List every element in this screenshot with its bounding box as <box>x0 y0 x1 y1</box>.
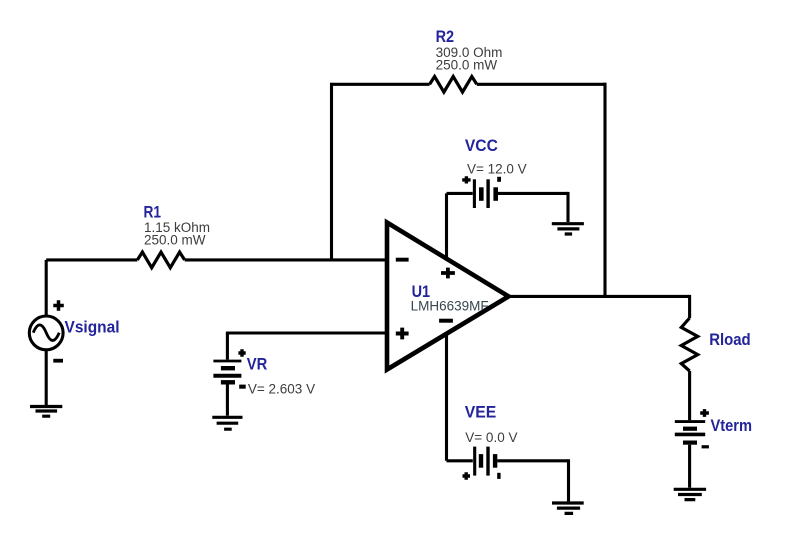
wire Rload to Vterm vertical <box>688 371 691 420</box>
svg-text:V= 2.603 V: V= 2.603 V <box>248 382 315 397</box>
wire VCC to ground vertical <box>566 192 569 222</box>
svg-text:VR: VR <box>247 354 267 373</box>
wire feedback right vertical <box>603 83 606 297</box>
svg-text:250.0 mW: 250.0 mW <box>144 233 206 248</box>
resistor R1 <box>137 203 210 268</box>
ground for VR <box>212 417 242 429</box>
svg-text:VEE: VEE <box>465 402 497 421</box>
ground for VCC <box>552 224 584 234</box>
wire VEE pin vertical <box>445 334 448 461</box>
battery Vterm <box>675 409 752 448</box>
wire VR to op-amp non-inverting input <box>226 331 387 334</box>
svg-text:Vterm: Vterm <box>711 416 753 435</box>
svg-text:V= 0.0 V: V= 0.0 V <box>465 430 517 445</box>
battery VEE <box>447 402 569 479</box>
wire input from Vsignal to R1 <box>46 258 137 261</box>
wire op-amp output <box>509 295 690 298</box>
wire feedback left vertical <box>330 83 333 260</box>
battery VR <box>213 333 315 416</box>
svg-text:Vsignal: Vsignal <box>65 317 120 336</box>
resistor R2 <box>430 27 503 92</box>
svg-text:R2: R2 <box>436 27 455 46</box>
wire feedback top horizontal left segment <box>332 83 430 86</box>
wire VCC pin vertical <box>445 193 448 258</box>
wire feedback top horizontal right segment <box>477 83 607 86</box>
svg-text:V= 12.0 V: V= 12.0 V <box>467 162 527 177</box>
op-amp U1 <box>387 223 509 370</box>
svg-text:R1: R1 <box>144 203 162 222</box>
svg-text:VCC: VCC <box>465 136 498 155</box>
svg-text:LMH6639MF: LMH6639MF <box>411 299 489 314</box>
battery VCC <box>447 136 569 208</box>
svg-text:Rload: Rload <box>709 330 751 349</box>
wire Vterm to ground vertical <box>688 445 691 488</box>
svg-text:250.0 mW: 250.0 mW <box>436 57 498 72</box>
resistor Rload <box>681 318 750 371</box>
wire VEE to ground vertical <box>567 459 570 501</box>
ground for Vterm <box>674 489 706 499</box>
wire R1 to op-amp inverting input <box>185 258 387 261</box>
AC source Vsignal <box>29 260 119 406</box>
ground for Vsignal <box>30 407 62 417</box>
wire output to Rload vertical <box>688 295 691 318</box>
ground for VEE <box>552 503 584 513</box>
